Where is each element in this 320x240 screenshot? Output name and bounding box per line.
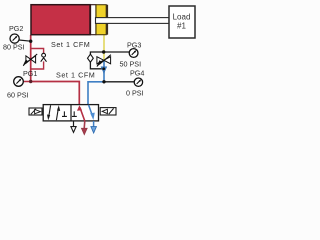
svg-text:Set 1 CFM: Set 1 CFM (51, 40, 90, 49)
svg-text:50 PSI: 50 PSI (120, 59, 142, 68)
svg-text:#1: #1 (177, 22, 186, 31)
svg-text:80 PSI: 80 PSI (3, 42, 25, 51)
svg-text:PG4: PG4 (130, 68, 144, 77)
svg-text:Load: Load (173, 13, 191, 22)
svg-text:60 PSI: 60 PSI (7, 90, 29, 99)
svg-text:PG1: PG1 (23, 69, 37, 78)
svg-text:Set 1 CFM: Set 1 CFM (56, 71, 95, 80)
svg-text:PG2: PG2 (9, 24, 23, 33)
svg-text:0 PSI: 0 PSI (126, 88, 144, 97)
svg-text:PG3: PG3 (127, 40, 141, 49)
